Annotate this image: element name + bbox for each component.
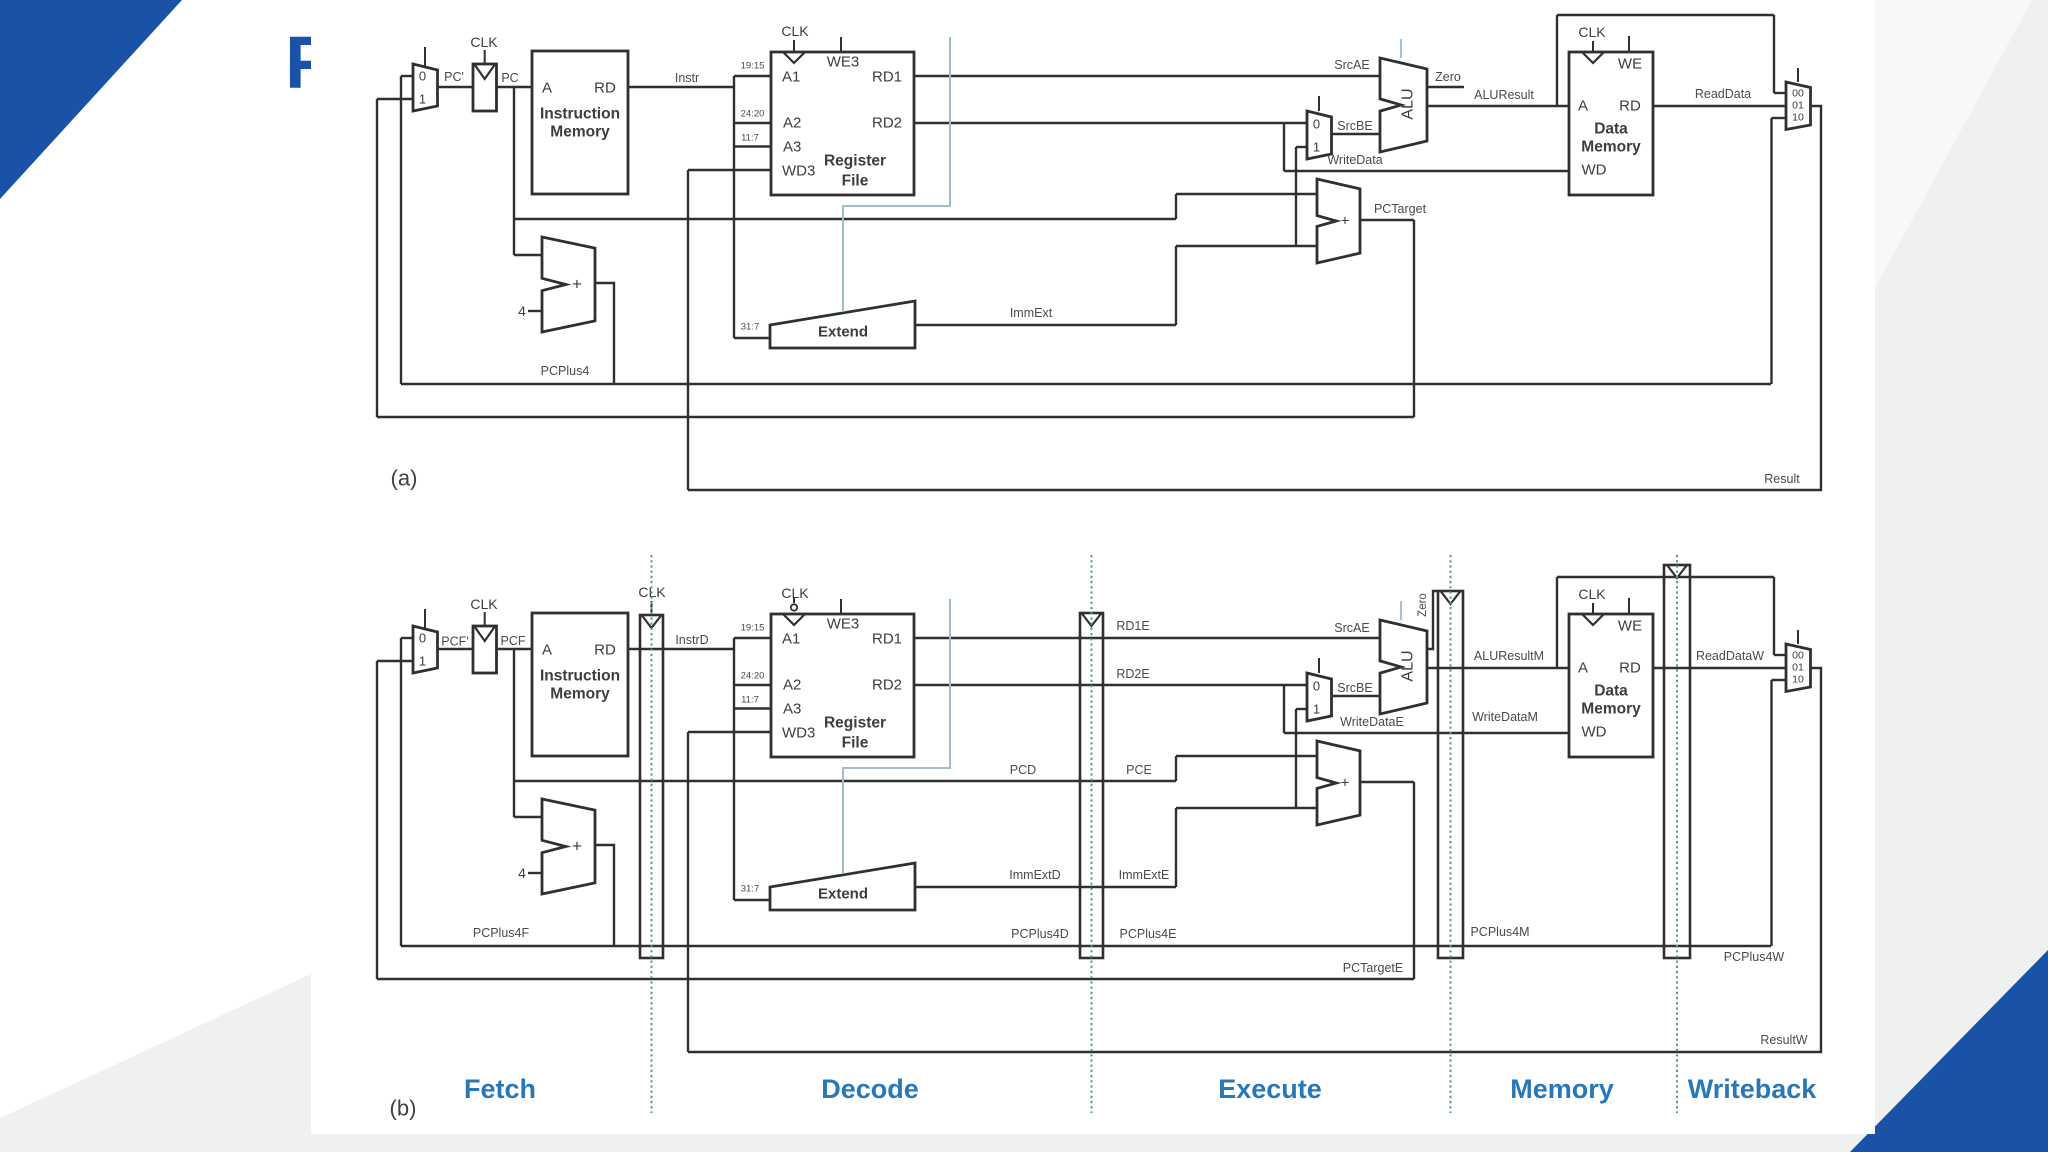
svg-text:ALUResult: ALUResult	[1474, 88, 1534, 102]
wire SrcB-mux output to ALU (a)	[1332, 133, 1381, 135]
svg-text:SrcAE: SrcAE	[1334, 58, 1369, 72]
wire PCPlus4 vertical into result-mux input 10 (b)	[1770, 680, 1772, 946]
wire PC tap down (a)	[513, 87, 515, 255]
wire PC-mux output to PC register (a)	[438, 86, 474, 88]
svg-text:PCD: PCD	[1010, 763, 1036, 777]
blue corner triangle bottom-right	[1850, 950, 2048, 1152]
svg-text:RD2E: RD2E	[1116, 667, 1149, 681]
svg-text:PCTarget: PCTarget	[1374, 202, 1427, 216]
wire ALUResult (b)	[1427, 667, 1569, 669]
wire SrcB-mux output to ALU (b)	[1332, 695, 1381, 697]
svg-text:ResultW: ResultW	[1760, 1033, 1807, 1047]
block Instruction Memory (b)	[532, 613, 628, 756]
svg-text:31:7: 31:7	[741, 884, 760, 895]
wire Zero flag (a)	[1427, 86, 1464, 88]
svg-text:A: A	[1578, 98, 1588, 115]
wire Instr tap to Extend (a)	[734, 337, 770, 339]
svg-text:Register: Register	[824, 715, 886, 732]
wire ReadData (b)	[1653, 667, 1786, 669]
svg-text:SrcAE: SrcAE	[1334, 621, 1369, 635]
block Register File (b)	[771, 614, 914, 757]
svg-text:A2: A2	[783, 115, 801, 132]
mux ALU SrcB (a)	[1307, 111, 1332, 159]
wire ImmExt from Extend (a)	[915, 324, 1176, 326]
svg-text:+: +	[1341, 213, 1350, 230]
svg-text:SrcBE: SrcBE	[1337, 681, 1372, 695]
adder branch target (b)	[1317, 741, 1360, 825]
wire PC tap down (b)	[513, 649, 515, 817]
svg-text:Data: Data	[1594, 121, 1628, 138]
svg-text:00: 00	[1792, 88, 1804, 100]
svg-text:Instr: Instr	[675, 71, 699, 85]
svg-text:PCPlus4E: PCPlus4E	[1120, 927, 1177, 941]
svg-text:PCPlus4D: PCPlus4D	[1011, 927, 1069, 941]
wire plus4 adder output (a)	[595, 283, 614, 384]
wire PC to branch adder (b)	[514, 780, 1176, 782]
wire plus4 adder output (b)	[595, 845, 614, 946]
wire PCPlus4 main horizontal (b)	[401, 945, 1771, 947]
svg-text:ImmExtD: ImmExtD	[1009, 868, 1060, 882]
wire Instr tap A1 (b)	[734, 637, 771, 639]
control tick above ALU teal (b)	[1400, 601, 1402, 620]
svg-text:+: +	[572, 837, 582, 856]
svg-text:0: 0	[419, 631, 426, 646]
svg-text:10: 10	[1792, 112, 1804, 124]
svg-text:+: +	[572, 275, 582, 294]
gray bottom band	[311, 1134, 1875, 1152]
svg-text:RD2: RD2	[872, 115, 902, 132]
block Instruction Memory (a)	[532, 51, 628, 194]
svg-text:CLK: CLK	[470, 34, 498, 50]
wire ALUResult over data memory (b)	[1556, 577, 1558, 668]
svg-text:Decode: Decode	[821, 1074, 919, 1104]
svg-text:PCTargetE: PCTargetE	[1343, 961, 1403, 975]
control tick above ALU teal (a)	[1400, 39, 1402, 58]
wire Instr tap to Extend (b)	[734, 899, 770, 901]
adder PCPlus4 (a)	[542, 237, 595, 332]
svg-text:WriteDataM: WriteDataM	[1472, 710, 1538, 724]
wire PC register to instruction memory (a)	[496, 86, 532, 88]
alu ALU (b)	[1380, 620, 1427, 714]
wire PCTarget feedback (a)	[1360, 219, 1414, 221]
wire Zero flag (b)	[1427, 591, 1438, 649]
svg-text:Fetch: Fetch	[464, 1074, 536, 1104]
svg-text:PCPlus4W: PCPlus4W	[1724, 950, 1785, 964]
svg-text:Extend: Extend	[818, 886, 868, 903]
svg-text:Memory: Memory	[550, 686, 610, 703]
wire PCPlus4 vertical into result-mux input 10 (a)	[1770, 118, 1772, 384]
svg-text:Execute: Execute	[1218, 1074, 1322, 1104]
block Extend (a)	[770, 301, 915, 348]
svg-text:RD: RD	[594, 80, 616, 97]
svg-text:24:20: 24:20	[741, 109, 765, 120]
block Extend (b)	[770, 863, 915, 910]
svg-text:A1: A1	[782, 69, 800, 86]
block Register File (a)	[771, 52, 914, 195]
svg-text:+: +	[1341, 775, 1350, 792]
svg-text:31:7: 31:7	[741, 322, 760, 333]
svg-text:01: 01	[1792, 100, 1804, 112]
svg-text:A1: A1	[782, 631, 800, 648]
wire WriteData (a)	[1284, 170, 1569, 172]
wire Result feedback (a)	[688, 106, 1821, 490]
gray side panel right	[1875, 0, 2048, 1152]
wire ImmExt up to SrcB-mux input1 (b)	[1295, 709, 1297, 808]
svg-text:Extend: Extend	[818, 324, 868, 341]
svg-text:PCF: PCF	[501, 634, 526, 648]
wire PC into plus4 adder (b)	[514, 816, 542, 818]
wire PCPlus4 main horizontal (a)	[401, 383, 1771, 385]
wire ALUResult (a)	[1427, 105, 1569, 107]
wire PC register to instruction memory (b)	[496, 648, 532, 650]
svg-text:(a): (a)	[391, 466, 418, 491]
stage divider dashed Fetch/Decode	[651, 555, 653, 1113]
svg-text:(b): (b)	[390, 1096, 417, 1121]
svg-text:ReadDataW: ReadDataW	[1696, 649, 1764, 663]
svg-text:Memory: Memory	[550, 124, 610, 141]
wire Instr tap A1 (a)	[734, 75, 771, 77]
register PC (b)	[473, 626, 497, 673]
wire WriteData (b)	[1284, 732, 1569, 734]
svg-text:Zero: Zero	[1417, 593, 1429, 617]
svg-text:WE: WE	[1618, 618, 1642, 635]
svg-text:RD1E: RD1E	[1116, 619, 1149, 633]
register PC (a)	[473, 64, 497, 111]
wire PC to branch adder (a)	[514, 218, 1176, 220]
blue corner triangle top-left	[0, 0, 182, 199]
svg-text:WE3: WE3	[827, 616, 860, 633]
svg-text:Register: Register	[824, 153, 886, 170]
wire RD1 to ALU SrcA (b)	[914, 637, 1380, 639]
svg-text:WE3: WE3	[827, 54, 860, 71]
svg-text:Memory: Memory	[1581, 701, 1641, 718]
wire Instr tap A2 (b)	[734, 684, 771, 686]
svg-text:24:20: 24:20	[741, 671, 765, 682]
svg-text:4: 4	[518, 865, 526, 881]
svg-text:PC': PC'	[444, 70, 464, 84]
wire PC-mux output to PC register (b)	[438, 648, 474, 650]
svg-text:RD1: RD1	[872, 631, 902, 648]
wire ImmExt from Extend (b)	[915, 886, 1176, 888]
mux ALU SrcB (b)	[1307, 673, 1332, 721]
svg-text:ALUResultM: ALUResultM	[1474, 649, 1544, 663]
wire Instr tap A3 (b)	[734, 707, 771, 709]
wire Instr bus (b)	[628, 648, 734, 650]
svg-text:CLK: CLK	[781, 585, 809, 601]
svg-text:SrcBE: SrcBE	[1337, 119, 1372, 133]
svg-text:WD3: WD3	[782, 163, 815, 180]
svg-text:ImmExt: ImmExt	[1010, 306, 1053, 320]
svg-text:Result: Result	[1764, 472, 1800, 486]
svg-text:PC: PC	[501, 71, 518, 85]
wire RD1 to ALU SrcA (a)	[914, 75, 1380, 77]
svg-text:WriteDataE: WriteDataE	[1340, 715, 1404, 729]
svg-text:Zero: Zero	[1435, 70, 1461, 84]
svg-text:WD3: WD3	[782, 725, 815, 742]
wire constant 4 into adder (a)	[528, 310, 542, 312]
svg-text:InstrD: InstrD	[675, 633, 708, 647]
mux Result select (b)	[1786, 644, 1811, 692]
svg-text:11:7: 11:7	[741, 695, 759, 706]
wire Instr tap A2 (a)	[734, 122, 771, 124]
svg-text:ReadData: ReadData	[1695, 87, 1751, 101]
gray bottom-left triangle	[0, 974, 311, 1152]
wire Instr tap A3 (a)	[734, 145, 771, 147]
wire PCPlus4 vertical into PC-mux input0 (b)	[400, 638, 402, 946]
svg-text:A3: A3	[783, 701, 801, 718]
block Data Memory (b)	[1569, 614, 1653, 757]
mux PC select (a)	[413, 64, 438, 111]
svg-text:PCE: PCE	[1126, 763, 1152, 777]
svg-text:ALU: ALU	[1400, 650, 1417, 681]
control line into Extend teal (b)	[843, 599, 950, 874]
wire Result feedback (b)	[688, 668, 1821, 1052]
mux PC select (b)	[413, 626, 438, 673]
pipeline register Writeback (b)	[1664, 565, 1690, 958]
wire WD3 feedback (a)	[688, 169, 771, 171]
svg-text:PCPlus4: PCPlus4	[541, 364, 590, 378]
svg-text:PCPlus4M: PCPlus4M	[1470, 925, 1529, 939]
wire WriteData branch down (a)	[1283, 123, 1285, 171]
svg-text:File: File	[842, 173, 869, 190]
svg-text:RD: RD	[1619, 660, 1641, 677]
alu ALU (a)	[1380, 58, 1427, 152]
svg-text:RD: RD	[1619, 98, 1641, 115]
svg-text:A2: A2	[783, 677, 801, 694]
svg-text:ALU: ALU	[1400, 88, 1417, 119]
wire PC into plus4 adder (a)	[514, 254, 542, 256]
svg-text:19:15: 19:15	[741, 61, 765, 72]
svg-text:Data: Data	[1594, 683, 1628, 700]
stage divider dashed Memory/Writeback	[1676, 555, 1678, 1113]
svg-text:CLK: CLK	[470, 596, 498, 612]
wire ALUResult over data memory (a)	[1556, 15, 1558, 106]
svg-text:Memory: Memory	[1510, 1074, 1614, 1104]
stage divider dashed Decode/Execute	[1091, 555, 1093, 1113]
block Data Memory (a)	[1569, 52, 1653, 195]
adder branch target (a)	[1317, 179, 1360, 263]
svg-text:10: 10	[1792, 674, 1804, 686]
svg-text:Instruction: Instruction	[540, 106, 620, 123]
wire RD2 (a)	[914, 122, 1307, 124]
svg-text:WE: WE	[1618, 56, 1642, 73]
svg-text:0: 0	[1313, 679, 1320, 694]
svg-text:11:7: 11:7	[741, 133, 759, 144]
stage divider dashed Execute/Memory	[1450, 555, 1452, 1113]
svg-text:A3: A3	[783, 139, 801, 156]
pipeline register Execute (b)	[1080, 613, 1103, 958]
svg-text:0: 0	[419, 69, 426, 84]
svg-text:PCF': PCF'	[441, 635, 468, 649]
svg-text:0: 0	[1313, 117, 1320, 132]
svg-text:WriteData: WriteData	[1327, 153, 1382, 167]
svg-text:Memory: Memory	[1581, 139, 1641, 156]
wire WD3 feedback (b)	[688, 731, 771, 733]
svg-text:File: File	[842, 735, 869, 752]
svg-text:RD: RD	[594, 642, 616, 659]
svg-text:PCPlus4F: PCPlus4F	[473, 926, 530, 940]
wire WriteData branch down (b)	[1283, 685, 1285, 733]
svg-text:CLK: CLK	[1578, 586, 1606, 602]
svg-text:WD: WD	[1582, 724, 1607, 741]
pipeline register Memory (b)	[1438, 591, 1463, 958]
svg-text:1: 1	[1313, 702, 1320, 717]
svg-text:1: 1	[1313, 140, 1320, 155]
svg-text:A: A	[542, 642, 552, 659]
wire RD2 (b)	[914, 684, 1307, 686]
wire constant 4 into adder (b)	[528, 872, 542, 874]
wire ReadData (a)	[1653, 105, 1786, 107]
mux Result select (a)	[1786, 82, 1811, 130]
svg-text:1: 1	[419, 92, 426, 107]
svg-text:RD2: RD2	[872, 677, 902, 694]
svg-text:Writeback: Writeback	[1688, 1074, 1818, 1104]
wire Instr bus (a)	[628, 86, 734, 88]
svg-text:Instruction: Instruction	[540, 668, 620, 685]
wire PCTarget feedback (b)	[1360, 781, 1414, 783]
control line into Extend teal (a)	[843, 37, 950, 312]
svg-text:19:15: 19:15	[741, 623, 765, 634]
pipeline register Decode (b)	[640, 615, 663, 958]
svg-text:CLK: CLK	[1578, 24, 1606, 40]
svg-text:ImmExtE: ImmExtE	[1119, 868, 1170, 882]
svg-text:A: A	[542, 80, 552, 97]
svg-text:1: 1	[419, 654, 426, 669]
svg-text:RD1: RD1	[872, 69, 902, 86]
wire ImmExt up to SrcB-mux input1 (a)	[1295, 147, 1297, 246]
svg-text:A: A	[1578, 660, 1588, 677]
adder PCPlus4 (b)	[542, 799, 595, 894]
svg-text:WD: WD	[1582, 162, 1607, 179]
gray highlight wedge top-right	[1875, 0, 2032, 288]
svg-text:01: 01	[1792, 662, 1804, 674]
wire PCPlus4 vertical into PC-mux input0 (a)	[400, 76, 402, 384]
svg-text:00: 00	[1792, 650, 1804, 662]
svg-text:CLK: CLK	[781, 23, 809, 39]
svg-text:4: 4	[518, 303, 526, 319]
